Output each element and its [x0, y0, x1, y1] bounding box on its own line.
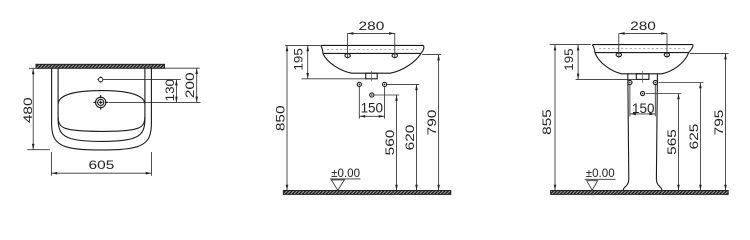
svg-text:850: 850 [274, 105, 287, 131]
svg-text:560: 560 [384, 129, 397, 155]
svg-text:280: 280 [630, 20, 656, 33]
svg-text:195: 195 [563, 48, 576, 70]
svg-text:130: 130 [164, 79, 177, 101]
svg-text:±0.00: ±0.00 [331, 167, 360, 180]
svg-text:195: 195 [293, 48, 306, 70]
svg-text:±0.00: ±0.00 [586, 167, 615, 180]
svg-text:565: 565 [666, 129, 679, 155]
svg-text:795: 795 [713, 110, 726, 136]
svg-text:625: 625 [688, 124, 701, 150]
svg-text:480: 480 [22, 97, 35, 123]
svg-text:855: 855 [541, 109, 554, 135]
svg-text:150: 150 [361, 99, 384, 115]
svg-text:150: 150 [632, 100, 655, 116]
svg-text:790: 790 [426, 109, 439, 135]
svg-text:605: 605 [89, 159, 115, 172]
svg-text:280: 280 [359, 20, 385, 33]
svg-text:200: 200 [184, 72, 197, 98]
svg-text:620: 620 [404, 124, 417, 150]
